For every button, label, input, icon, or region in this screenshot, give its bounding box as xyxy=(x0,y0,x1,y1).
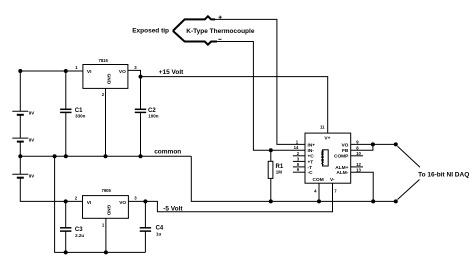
svg-text:VO: VO xyxy=(341,142,348,148)
wire C4 bottom to bottom rail xyxy=(144,231,146,252)
svg-text:IN+: IN+ xyxy=(308,142,316,148)
battery B1 9V xyxy=(12,111,28,115)
svg-text:7815: 7815 xyxy=(99,58,109,63)
svg-text:9V: 9V xyxy=(29,138,35,143)
svg-text:+T: +T xyxy=(308,159,314,165)
wire common rail xyxy=(20,155,191,157)
wire AD595 VO pin 9 xyxy=(351,143,396,145)
svg-text:COM: COM xyxy=(313,177,324,183)
svg-text:VI: VI xyxy=(87,69,92,75)
node C4 top xyxy=(143,199,147,203)
resistor R1 1M xyxy=(268,161,273,178)
svg-text:C4: C4 xyxy=(156,225,164,231)
node C2 bottom xyxy=(139,154,143,158)
wire R1 bottom xyxy=(270,178,272,201)
wire battery column seg3 xyxy=(19,156,21,174)
svg-text:+C: +C xyxy=(308,154,315,160)
wire C2 top xyxy=(140,77,142,110)
svg-text:12: 12 xyxy=(356,162,361,167)
svg-text:-T: -T xyxy=(308,165,313,171)
node VO/FB junction xyxy=(371,142,375,146)
node C3 bottom rail xyxy=(64,250,68,254)
svg-text:9V: 9V xyxy=(29,111,35,116)
wire C4 top xyxy=(144,201,146,227)
node C1 bottom xyxy=(64,154,68,158)
svg-text:AD595: AD595 xyxy=(320,150,326,165)
wire AD595 ALM- pin 13 xyxy=(351,172,374,201)
svg-text:GND: GND xyxy=(106,205,112,216)
capacitor C4 1u xyxy=(140,228,151,231)
wire C3 top xyxy=(65,201,67,227)
wire common rail to bottom rail xyxy=(55,156,146,252)
node C3 top xyxy=(64,199,68,203)
svg-text:2.2u: 2.2u xyxy=(75,233,84,238)
svg-text:13: 13 xyxy=(356,167,361,172)
wire C3 bottom xyxy=(65,231,67,252)
node COM pin xyxy=(317,199,321,203)
svg-text:11: 11 xyxy=(320,125,325,130)
svg-text:To 16-bit NI DAQ: To 16-bit NI DAQ xyxy=(418,172,469,179)
svg-text:-C: -C xyxy=(308,170,314,176)
svg-text:9V: 9V xyxy=(29,174,35,179)
svg-text:ALM-: ALM- xyxy=(336,170,348,176)
capacitor C2 100n xyxy=(135,109,146,112)
wire AD595 ALM+ pin 12 stub xyxy=(351,166,363,168)
node C1 top xyxy=(64,69,68,73)
svg-text:+15 Volt: +15 Volt xyxy=(159,69,184,76)
svg-text:K-Type Thermocouple: K-Type Thermocouple xyxy=(186,28,255,35)
wire 7815 VO to +15V rail xyxy=(128,70,141,76)
wire top rail xyxy=(20,71,83,111)
wire AD595 FB pin 8 xyxy=(351,144,373,150)
thermocouple TC1 K-type symbol xyxy=(173,16,217,44)
battery B3 9V xyxy=(12,174,28,178)
node 7815 GND xyxy=(104,154,108,158)
wire R1 top xyxy=(270,150,272,161)
svg-text:1M: 1M xyxy=(276,170,283,175)
svg-text:1u: 1u xyxy=(156,232,162,237)
svg-text:VO: VO xyxy=(119,200,126,206)
node +15V / C2 xyxy=(139,75,143,79)
wire AD595 +C pin 2 stub xyxy=(293,155,305,157)
wire DAQ lower diagonal xyxy=(398,180,420,200)
svg-text:10: 10 xyxy=(356,151,361,156)
node R1 top / IN- xyxy=(269,148,273,152)
regulator U1 7815 xyxy=(83,65,128,89)
wire AD595 COMP pin 10 stub xyxy=(351,155,363,157)
svg-text:GND: GND xyxy=(105,74,111,85)
svg-text:VO: VO xyxy=(119,69,126,75)
wire C1 bottom xyxy=(65,112,67,156)
svg-text:V-: V- xyxy=(330,177,335,183)
svg-text:Exposed tip: Exposed tip xyxy=(132,28,169,35)
node 7905 GND bottom rail xyxy=(104,250,108,254)
svg-text:V+: V+ xyxy=(324,135,330,141)
wire thermocouple bottom lead to IN- xyxy=(217,42,305,151)
node DAQ lower terminal xyxy=(394,199,398,203)
wire 7815 GND pin 2 xyxy=(105,88,107,156)
wire AD595 -T pin 5 stub xyxy=(293,166,305,168)
wire DAQ upper diagonal xyxy=(398,146,421,167)
svg-text:COMP: COMP xyxy=(334,154,349,160)
wire battery column seg1 xyxy=(19,115,21,138)
svg-text:7905: 7905 xyxy=(102,188,112,193)
op-amp U3 AD595 body xyxy=(305,133,351,183)
thermocouple polarity - xyxy=(218,38,221,40)
battery B2 9V xyxy=(12,138,28,142)
node bottom-rail link xyxy=(53,154,57,158)
regulator U2 7905 xyxy=(83,196,129,219)
wire battery column seg2 xyxy=(19,142,21,157)
capacitor C1 330n xyxy=(60,109,71,112)
node top-left corner xyxy=(18,69,22,73)
svg-text:VI: VI xyxy=(87,200,92,206)
node DAQ upper terminal xyxy=(394,142,398,146)
svg-text:common: common xyxy=(154,149,181,156)
wire common rail down to lower common line xyxy=(191,156,395,201)
svg-text:330n: 330n xyxy=(75,114,86,119)
svg-text:ALM+: ALM+ xyxy=(335,165,348,171)
svg-text:-5 Volt: -5 Volt xyxy=(163,206,183,213)
svg-text:14: 14 xyxy=(294,145,299,150)
svg-text:100n: 100n xyxy=(148,114,159,119)
wire C2 bottom xyxy=(140,112,142,156)
wire AD595 COM pin 4 xyxy=(318,183,320,201)
node ALM- common xyxy=(371,199,375,203)
thermocouple polarity + xyxy=(219,16,222,19)
svg-text:IN-: IN- xyxy=(308,148,315,154)
wire +15V rail to AD595 V+ pin 11 xyxy=(141,77,328,134)
wire 7905 GND pin 1 xyxy=(105,218,107,252)
capacitor C3 2.2u xyxy=(60,228,71,231)
wire AD595 +T pin 3 stub xyxy=(293,160,305,162)
node R1 bottom xyxy=(269,199,273,203)
wire AD595 -C pin 6 stub xyxy=(293,171,305,173)
wire thermocouple top lead to IN+ xyxy=(215,19,305,144)
wire battery to 7905 VI xyxy=(20,178,82,202)
wire C1 top xyxy=(65,71,67,109)
wire 7905 VO -5V line to AD595 V- pin 7 xyxy=(128,183,332,212)
node battery common xyxy=(18,154,22,158)
svg-text:FB: FB xyxy=(342,148,349,154)
